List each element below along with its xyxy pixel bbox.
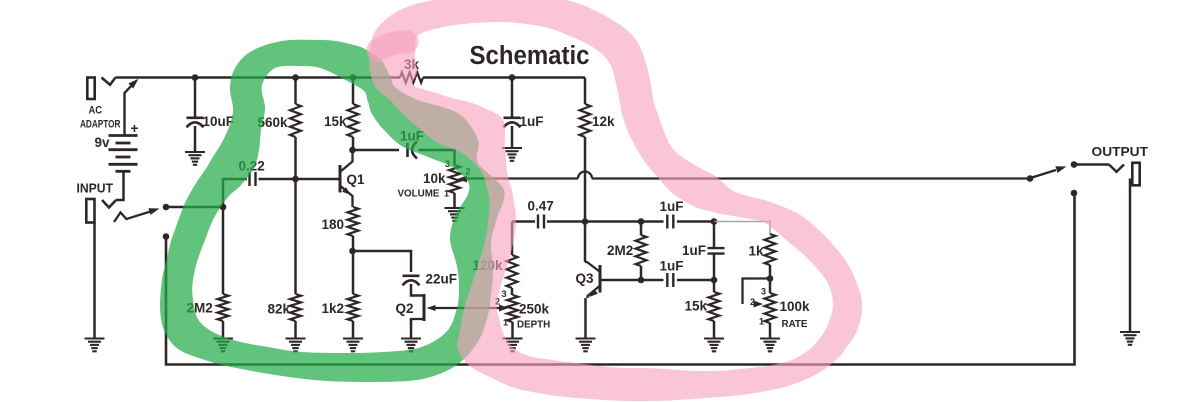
- svg-text:1: 1: [759, 317, 764, 327]
- node 15k top: [711, 277, 718, 284]
- svg-text:Q3: Q3: [576, 271, 595, 286]
- svg-text:Q1: Q1: [347, 172, 366, 187]
- svg-text:15k: 15k: [324, 114, 347, 129]
- node 2M2 top: [220, 204, 227, 211]
- resistor R8 12k: [584, 78, 587, 105]
- resistor R9 2M2: [640, 222, 643, 236]
- svg-text:1uF: 1uF: [520, 114, 544, 129]
- capacitor C3 22uF: [403, 274, 420, 277]
- svg-text:1k2: 1k2: [322, 301, 345, 316]
- ground 1k2: [343, 337, 363, 339]
- node rail 1uF: [509, 74, 516, 81]
- capacitor C9 1uF vertical: [708, 247, 725, 249]
- wire C2 to ground: [194, 126, 197, 152]
- battery BT1 9v: [109, 134, 138, 137]
- wire C4 to volume pot: [419, 150, 455, 165]
- node output bypass contact: [1071, 190, 1078, 197]
- node 1k-100k junction: [767, 275, 774, 282]
- pink marker start hook: [378, 42, 407, 50]
- ground volume pot: [445, 207, 465, 209]
- node 560k-base junction: [292, 176, 299, 183]
- wire junction to C3: [353, 251, 412, 272]
- capacitor C7 1uF: [666, 215, 668, 229]
- wire C6 to Q3 collector node: [547, 220, 664, 223]
- wire collector to C4: [353, 149, 400, 152]
- ground 2M2: [213, 337, 233, 339]
- battery to input-jack wire: [116, 171, 124, 200]
- transistor Q2: [423, 294, 426, 321]
- svg-text:DEPTH: DEPTH: [517, 320, 550, 331]
- wire LFO top rail: [512, 220, 535, 223]
- svg-text:22uF: 22uF: [426, 272, 458, 287]
- ground 100k: [760, 337, 780, 339]
- capacitor C1 0.22: [248, 172, 250, 186]
- wire 100k to ground: [769, 323, 772, 339]
- output jack sleeve to ground: [1129, 179, 1132, 333]
- potentiometer VR1 10k volume: [449, 165, 460, 193]
- wire C8 left: [641, 279, 664, 282]
- wire to output jack: [1074, 163, 1109, 166]
- potentiometer VR3 100k rate: [765, 293, 776, 323]
- ground 15k: [704, 337, 724, 339]
- ground 82k: [286, 337, 306, 339]
- wire C1 to Q1 base: [259, 178, 341, 181]
- resistor R2 15k: [352, 78, 355, 105]
- wire rail to C2: [194, 78, 197, 117]
- node Q3 collector top: [582, 218, 589, 225]
- resistor R12 120k: [511, 222, 514, 256]
- OUTPUT jack J3: [1109, 165, 1124, 172]
- transistor Q3: [599, 265, 602, 293]
- wire 12k down to Q3 collector: [584, 137, 587, 262]
- node Q3 base junction: [638, 277, 645, 284]
- green marker highlight loop: [160, 40, 505, 382]
- node output switch top contact: [1071, 161, 1078, 168]
- svg-text:1uF: 1uF: [682, 243, 706, 258]
- svg-text:12k: 12k: [592, 114, 615, 129]
- svg-text:2: 2: [750, 297, 755, 307]
- svg-text:1k: 1k: [749, 244, 765, 259]
- gray wire to 1k: [714, 222, 770, 235]
- svg-text:1uF: 1uF: [660, 199, 684, 214]
- svg-text:INPUT: INPUT: [77, 182, 114, 196]
- bypass return wire: [166, 193, 1075, 365]
- svg-text:82k: 82k: [268, 302, 291, 317]
- svg-text:3: 3: [501, 289, 506, 299]
- ground input jack: [85, 337, 105, 339]
- svg-text:VOLUME: VOLUME: [398, 189, 440, 200]
- node rail 560k: [292, 74, 299, 81]
- wire Q3 base: [600, 279, 641, 282]
- node rail 15k: [350, 74, 357, 81]
- node vertical cap top: [711, 218, 718, 225]
- input jack sleeve wire to ground: [93, 223, 96, 339]
- input switch squiggle wire: [114, 211, 152, 222]
- svg-text:0.47: 0.47: [528, 199, 554, 214]
- ground C5: [502, 147, 522, 149]
- svg-text:15k: 15k: [685, 299, 708, 314]
- wire rail to C5: [511, 78, 514, 117]
- wire C7 to 1k node: [677, 220, 714, 223]
- capacitor C8 1uF: [666, 273, 668, 287]
- wire 120k to depth pot: [511, 288, 514, 295]
- svg-text:AC: AC: [89, 105, 103, 117]
- node rail 10uF: [192, 74, 199, 81]
- svg-text:250k: 250k: [519, 302, 550, 317]
- svg-text:100k: 100k: [780, 299, 811, 314]
- wire volume wiper to output switch: [470, 177, 578, 179]
- svg-text:1uF: 1uF: [660, 259, 684, 274]
- pink marker highlight loop: [369, 0, 862, 401]
- ground C2: [185, 151, 205, 153]
- wire C5 to ground: [511, 126, 514, 148]
- resistor R10 15k: [709, 292, 720, 321]
- wire input node to C1: [166, 179, 247, 207]
- capacitor C2 10uF: [187, 117, 204, 120]
- capacitor C5 1uF: [504, 117, 521, 120]
- potentiometer VR2 250k depth: [507, 295, 518, 322]
- ground output jack: [1120, 331, 1140, 333]
- resistor R1 560k: [294, 78, 297, 105]
- svg-text:10k: 10k: [423, 171, 446, 186]
- resistor R3 2M2: [222, 207, 225, 294]
- resistor R6 1k2: [348, 294, 359, 321]
- node 180-1k2-22uF junction: [349, 248, 356, 255]
- svg-text:+: +: [130, 120, 138, 136]
- capacitor C6 0.47: [537, 215, 539, 229]
- svg-text:1: 1: [503, 318, 508, 328]
- INPUT jack J2: [102, 200, 116, 208]
- node Q1 collector: [349, 147, 356, 154]
- node output switch pole: [1027, 175, 1034, 182]
- wire depth pot to ground: [511, 322, 514, 339]
- resistor R11 1k: [765, 234, 776, 265]
- svg-text:1: 1: [444, 189, 449, 199]
- wire top supply rail: [116, 76, 401, 79]
- svg-text:9v: 9v: [94, 135, 110, 150]
- wire C8 to 15k node: [677, 279, 714, 282]
- node input switch top contact: [163, 204, 170, 211]
- svg-text:RATE: RATE: [782, 319, 808, 330]
- wire C3 to Q2 drain: [411, 284, 424, 296]
- svg-text:3: 3: [761, 287, 766, 297]
- svg-text:180: 180: [322, 217, 345, 232]
- resistor R7 3k: [400, 72, 423, 82]
- svg-text:Q2: Q2: [396, 301, 414, 316]
- svg-text:ADAPTOR: ADAPTOR: [80, 119, 121, 131]
- wire Q2 source to ground: [410, 319, 413, 339]
- resistor R5 180: [348, 207, 359, 236]
- resistor R4 82k: [294, 179, 297, 294]
- svg-text:Schematic: Schematic: [470, 42, 590, 70]
- wire volume to ground: [453, 193, 456, 208]
- ground Q2: [401, 337, 421, 339]
- ground Q3: [576, 337, 596, 339]
- node 2M2b top: [638, 218, 645, 225]
- DC plug arrow: [125, 84, 134, 136]
- svg-text:OUTPUT: OUTPUT: [1092, 145, 1149, 159]
- node bypass lower contact: [163, 233, 170, 240]
- capacitor C4 1uF: [406, 143, 409, 157]
- AC adaptor jack J1: [87, 78, 94, 100]
- ground depth pot: [503, 337, 523, 339]
- transistor Q1: [339, 165, 342, 193]
- output switch arrow: [1032, 170, 1056, 178]
- svg-text:2M2: 2M2: [607, 243, 633, 258]
